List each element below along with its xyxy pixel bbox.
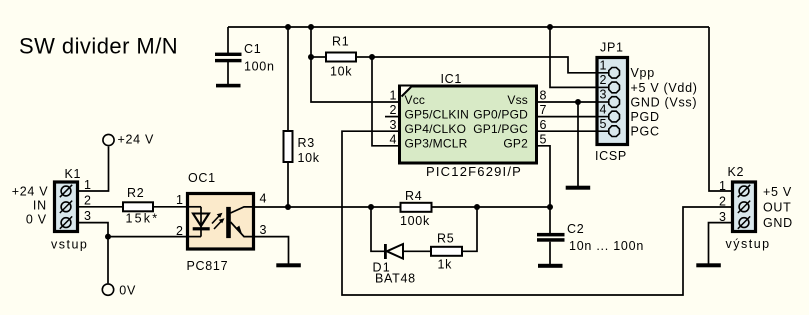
pin 3 pad bbox=[739, 218, 749, 228]
svg-text:1k: 1k bbox=[438, 258, 453, 272]
diode D1 BAT48 bbox=[371, 207, 431, 286]
light arrows bbox=[212, 216, 220, 224]
wire OC1 pin3 to ground bbox=[255, 237, 289, 264]
svg-text:GND: GND bbox=[763, 216, 793, 230]
svg-text:6: 6 bbox=[540, 118, 547, 132]
svg-text:3: 3 bbox=[84, 209, 91, 223]
node R1 right bbox=[369, 54, 375, 60]
wire Vpp (R1 to JP1 pin 1) bbox=[372, 57, 596, 73]
svg-text:GP2: GP2 bbox=[503, 137, 528, 151]
LED inside bbox=[186, 206, 201, 208]
svg-text:2: 2 bbox=[84, 193, 91, 207]
wire Vdd (rail to JP1 pin 2) bbox=[550, 27, 596, 87]
svg-text:1: 1 bbox=[390, 89, 397, 103]
wire GP5 stub bbox=[385, 116, 398, 118]
ground (Vss) bbox=[566, 186, 591, 190]
wire GP2 (IC pin 5 down to node) bbox=[538, 146, 550, 207]
ground (C2) bbox=[538, 264, 563, 268]
svg-text:+24 V: +24 V bbox=[12, 184, 49, 198]
svg-text:K1: K1 bbox=[65, 167, 82, 181]
wire Vcc (rail to IC pin 1) bbox=[311, 27, 398, 102]
svg-text:PGC: PGC bbox=[631, 125, 660, 139]
ground (C1) bbox=[216, 84, 241, 88]
pin 1 pad bbox=[739, 186, 749, 196]
node rail-R3 bbox=[285, 24, 291, 30]
resistor R1 bbox=[311, 35, 372, 79]
resistor R2 bbox=[123, 186, 186, 225]
svg-text:4: 4 bbox=[600, 102, 607, 116]
pin 4 bbox=[599, 116, 610, 118]
svg-text:R2: R2 bbox=[127, 186, 144, 200]
svg-text:GP0/PGD: GP0/PGD bbox=[473, 107, 528, 121]
wire K1 pin3 to node bbox=[78, 223, 108, 237]
svg-text:3: 3 bbox=[260, 223, 267, 237]
wire K2 pin3 to ground bbox=[709, 223, 733, 264]
wire GP4/CLKO to bottom to K2 pin 2 bbox=[342, 131, 731, 295]
svg-text:BAT48: BAT48 bbox=[375, 272, 416, 286]
svg-text:výstup: výstup bbox=[726, 237, 771, 251]
svg-text:2: 2 bbox=[719, 195, 726, 209]
svg-text:5: 5 bbox=[600, 117, 607, 131]
svg-text:0 V: 0 V bbox=[26, 213, 47, 227]
svg-text:OC1: OC1 bbox=[188, 171, 216, 185]
svg-text:Vcc: Vcc bbox=[405, 93, 426, 107]
svg-text:PC817: PC817 bbox=[187, 259, 229, 273]
svg-text:vstup: vstup bbox=[51, 238, 88, 252]
svg-text:+5 V (Vdd): +5 V (Vdd) bbox=[631, 81, 698, 95]
svg-text:10n ... 100n: 10n ... 100n bbox=[569, 239, 644, 253]
svg-text:1: 1 bbox=[84, 178, 91, 192]
wire Vss down bbox=[577, 102, 579, 186]
wire OC1 pin4 / collector line bbox=[255, 206, 400, 208]
svg-text:IN: IN bbox=[33, 199, 47, 213]
pin 3 pad bbox=[61, 218, 71, 228]
IC IC1 PIC12F629I/P bbox=[390, 72, 547, 179]
svg-text:+24 V: +24 V bbox=[118, 133, 155, 147]
svg-text:2: 2 bbox=[390, 103, 397, 117]
wire PGD (IC pin 7 to JP1 pin 4) bbox=[538, 116, 596, 118]
optocoupler OC1 PC817 bbox=[176, 171, 267, 273]
svg-text:ICSP: ICSP bbox=[595, 149, 627, 163]
svg-text:PIC12F629I/P: PIC12F629I/P bbox=[426, 164, 522, 179]
node rail-Vdd bbox=[547, 24, 553, 30]
node rail-Vcc bbox=[308, 24, 314, 30]
node GP2/C2 bbox=[547, 204, 553, 210]
wire rail down to K2 pin 1 bbox=[709, 27, 731, 191]
resistor R3 bbox=[284, 27, 320, 207]
svg-text:PGD: PGD bbox=[631, 110, 660, 124]
ground (K2) bbox=[696, 263, 721, 267]
svg-text:100k: 100k bbox=[400, 214, 430, 228]
svg-text:JP1: JP1 bbox=[600, 41, 624, 55]
svg-text:Vpp: Vpp bbox=[631, 66, 655, 80]
node K1-0V bbox=[105, 234, 111, 240]
resistor R4 bbox=[400, 189, 550, 228]
pin 5 bbox=[599, 130, 610, 132]
svg-text:K2: K2 bbox=[728, 165, 745, 179]
svg-text:3: 3 bbox=[600, 88, 607, 102]
wire +5V rail bbox=[228, 26, 709, 28]
wire K1 pin2 to R2 bbox=[78, 206, 123, 208]
wire Vss (IC pin 8 to JP1 pin 3) bbox=[538, 101, 596, 103]
wire MCLR (R1 to IC pin 4) bbox=[372, 57, 398, 146]
pin 3 bbox=[599, 101, 610, 103]
svg-text:1: 1 bbox=[719, 179, 726, 193]
svg-text:C1: C1 bbox=[244, 42, 261, 56]
svg-text:R5: R5 bbox=[437, 231, 454, 245]
svg-text:Vss: Vss bbox=[507, 93, 528, 107]
node R3 bottom bbox=[285, 204, 291, 210]
svg-text:100n: 100n bbox=[244, 60, 275, 74]
svg-text:0V: 0V bbox=[119, 284, 136, 298]
svg-text:8: 8 bbox=[540, 89, 547, 103]
svg-text:R3: R3 bbox=[298, 136, 315, 150]
svg-text:7: 7 bbox=[540, 103, 547, 117]
node D1 branch bbox=[368, 204, 374, 210]
svg-text:10k: 10k bbox=[330, 65, 352, 79]
pin 2 pad bbox=[61, 202, 71, 212]
wire PGC (IC pin 6 to JP1 pin 5) bbox=[538, 130, 596, 132]
wire node down to 0V terminal bbox=[107, 237, 109, 284]
connector K1 bbox=[12, 167, 91, 252]
svg-text:OUT: OUT bbox=[763, 201, 792, 215]
svg-text:1: 1 bbox=[600, 59, 607, 73]
node R5 branch bbox=[474, 204, 480, 210]
pin 1 bbox=[599, 72, 610, 74]
capacitor C2 bbox=[537, 207, 644, 264]
svg-text:15k*: 15k* bbox=[126, 211, 160, 225]
svg-text:10k: 10k bbox=[298, 151, 320, 165]
svg-text:GP3/MCLR: GP3/MCLR bbox=[405, 137, 468, 151]
svg-text:SW divider M/N: SW divider M/N bbox=[19, 34, 178, 59]
connector K2 bbox=[719, 165, 793, 251]
svg-text:GP4/CLKO: GP4/CLKO bbox=[405, 122, 467, 136]
svg-text:IC1: IC1 bbox=[441, 72, 463, 86]
svg-text:2: 2 bbox=[176, 224, 183, 238]
wire K1 pin1 to +24V terminal bbox=[78, 147, 109, 192]
svg-text:GP1/PGC: GP1/PGC bbox=[473, 122, 528, 136]
node R1 left bbox=[308, 54, 314, 60]
connector JP1 (ICSP) bbox=[595, 41, 698, 164]
pin 2 bbox=[599, 86, 610, 88]
svg-text:+5 V: +5 V bbox=[763, 185, 792, 199]
svg-text:GP5/CLKIN: GP5/CLKIN bbox=[405, 107, 470, 121]
capacitor C1 bbox=[215, 27, 275, 84]
svg-text:R1: R1 bbox=[332, 35, 349, 49]
svg-text:5: 5 bbox=[540, 132, 547, 146]
terminal 0V bbox=[102, 284, 136, 298]
phototransistor bbox=[226, 207, 231, 238]
svg-text:1: 1 bbox=[176, 193, 183, 207]
resistor R5 bbox=[431, 207, 477, 272]
svg-text:GND (Vss): GND (Vss) bbox=[631, 95, 698, 109]
pin 1 pad bbox=[61, 186, 71, 196]
svg-text:4: 4 bbox=[260, 192, 267, 206]
svg-text:3: 3 bbox=[390, 118, 397, 132]
node Vss-gnd bbox=[575, 99, 581, 105]
pin 2 pad bbox=[739, 202, 749, 212]
ground (OC1 emitter) bbox=[276, 263, 301, 267]
svg-text:4: 4 bbox=[390, 132, 397, 146]
terminal +24V bbox=[103, 133, 154, 147]
svg-text:R4: R4 bbox=[405, 189, 422, 203]
svg-text:C2: C2 bbox=[567, 222, 584, 236]
svg-text:2: 2 bbox=[600, 73, 607, 87]
wire node to OC1 pin 2 bbox=[108, 236, 186, 238]
